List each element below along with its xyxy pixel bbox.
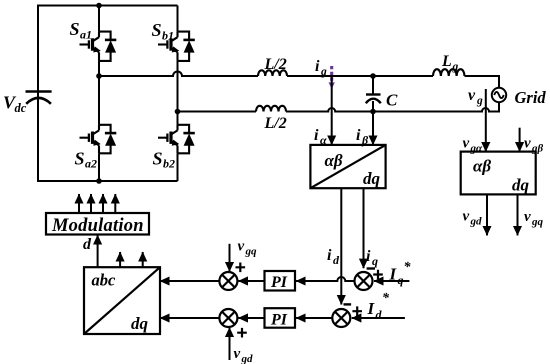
wire: gate drive arrow 4 bbox=[114, 194, 116, 213]
wire: bottom AC line from node B bbox=[178, 111, 257, 113]
inductor L/2 (top) bbox=[258, 70, 287, 76]
wire: v-g-beta input arrow bbox=[519, 128, 521, 152]
svg-text:gd: gd bbox=[241, 353, 254, 364]
label plus at X1 bbox=[236, 263, 246, 273]
transistor Sa2 (IGBT with antiparallel diode) bbox=[80, 125, 117, 154]
svg-text:abc: abc bbox=[92, 271, 117, 290]
wire: PI q output arrow into X1 bbox=[238, 280, 264, 282]
node: leg A bottom junction bbox=[96, 178, 102, 184]
wire: vg sense line to voltage box bbox=[485, 89, 487, 152]
svg-text:i: i bbox=[315, 58, 320, 75]
node A: leg A midpoint bbox=[96, 73, 102, 79]
svg-text:PI: PI bbox=[270, 312, 288, 329]
summer X4 (right, d axis) bbox=[332, 309, 350, 327]
label v-g-beta bbox=[524, 136, 544, 155]
inductor L/2 (bottom) bbox=[256, 106, 286, 112]
label vgq (feedforward) bbox=[238, 239, 258, 258]
label vg bbox=[468, 87, 483, 107]
inductor Lg bbox=[433, 69, 464, 76]
block U1: alpha-beta to dq transform (current) bbox=[310, 145, 385, 188]
node: capacitor bottom junction bbox=[370, 109, 376, 115]
svg-text:i: i bbox=[366, 248, 371, 265]
svg-text:dq: dq bbox=[512, 176, 530, 195]
wire: i-alpha sense line from top AC line to alpha-beta/dq box bbox=[331, 76, 333, 145]
wire: DC bus bottom rail bbox=[37, 180, 178, 182]
svg-text:dq: dq bbox=[363, 169, 381, 188]
block PI (d axis) bbox=[265, 308, 296, 328]
label id bbox=[327, 247, 340, 267]
svg-text:PI: PI bbox=[270, 274, 288, 291]
summer X3 (left, d axis) bbox=[219, 309, 237, 327]
wire: gate drive arrow 1 bbox=[78, 194, 80, 213]
label v-gq bbox=[524, 209, 544, 228]
svg-text:q: q bbox=[398, 273, 404, 287]
wire: vgd feedforward arrow into X3 bbox=[229, 328, 231, 361]
svg-text:dc: dc bbox=[15, 101, 27, 115]
node: leg A top junction bbox=[96, 3, 102, 9]
wire: top AC line to grid corner bbox=[465, 76, 500, 88]
svg-text:S: S bbox=[153, 149, 163, 169]
label minus at X4 bbox=[344, 303, 352, 305]
label Id* bbox=[367, 291, 391, 322]
label plus at X2 bbox=[373, 270, 383, 280]
wire: top AC line with hop over leg B bbox=[99, 72, 258, 77]
svg-text:L/2: L/2 bbox=[264, 115, 287, 132]
label ig bbox=[315, 58, 327, 78]
svg-text:I: I bbox=[367, 299, 376, 318]
svg-text:a1: a1 bbox=[80, 28, 92, 42]
wire: Id* reference line into X4 bbox=[352, 317, 405, 319]
svg-text:*: * bbox=[382, 291, 390, 306]
svg-text:i: i bbox=[327, 247, 332, 264]
label i-alpha bbox=[314, 127, 327, 147]
svg-text:C: C bbox=[386, 91, 398, 110]
wire: gate drive arrow 2 bbox=[90, 194, 92, 213]
svg-text:v: v bbox=[463, 209, 470, 225]
wire: X4 output arrow into PI d bbox=[296, 317, 332, 319]
svg-text:αβ: αβ bbox=[325, 151, 343, 170]
wire: Iq* reference line into X2 bbox=[374, 280, 409, 282]
source vg (AC grid source) bbox=[492, 88, 506, 102]
capacitor C bbox=[366, 76, 381, 112]
label Sb2 bbox=[153, 149, 176, 171]
wire: short output arrow 1 on abc box bbox=[119, 252, 121, 267]
wire: bottom AC line with hop over i-alpha sense line bbox=[286, 102, 499, 112]
wire: d output arrow to Modulation bbox=[97, 235, 99, 267]
svg-text:d: d bbox=[333, 253, 340, 267]
svg-text:*: * bbox=[404, 260, 412, 275]
wire: X1 output arrow into abc/dq box bbox=[160, 280, 219, 282]
svg-text:a2: a2 bbox=[85, 157, 97, 171]
summer X1 (left, q axis) bbox=[219, 272, 237, 290]
wire: v-gd output arrow bbox=[486, 194, 488, 235]
label v-gd bbox=[463, 209, 483, 228]
label Iq* bbox=[389, 260, 412, 287]
block U3: dq to abc transform bbox=[84, 267, 160, 334]
svg-text:i: i bbox=[314, 127, 319, 144]
wire: i-beta sense line from capacitor node to alpha-beta/dq box bbox=[372, 112, 374, 145]
svg-text:v: v bbox=[524, 136, 531, 152]
transistor Sa1 (IGBT with antiparallel diode) bbox=[80, 32, 117, 61]
svg-text:gq: gq bbox=[531, 216, 544, 228]
label Lg bbox=[441, 53, 459, 73]
wire: phase leg B rail bbox=[177, 6, 179, 182]
svg-text:i: i bbox=[356, 127, 361, 144]
wire: short output arrow 2 on abc box bbox=[142, 252, 144, 267]
svg-text:L: L bbox=[441, 53, 452, 70]
svg-text:gq: gq bbox=[245, 246, 258, 258]
svg-text:d: d bbox=[376, 308, 383, 322]
capacitor Vdc bbox=[26, 92, 52, 104]
wire: gate drive arrow 3 bbox=[102, 194, 104, 213]
block PI (q axis) bbox=[265, 271, 296, 291]
wire: ig measurement arrow (purple dashed) bbox=[329, 66, 335, 89]
wire: iq arrow into X2 bbox=[363, 188, 365, 268]
svg-text:Grid: Grid bbox=[515, 88, 547, 107]
svg-text:d: d bbox=[83, 236, 92, 253]
label vgd (feedforward) bbox=[234, 346, 254, 364]
svg-text:g: g bbox=[452, 61, 459, 73]
svg-text:S: S bbox=[70, 19, 80, 39]
label Sa2 bbox=[75, 149, 98, 171]
svg-text:v: v bbox=[234, 346, 241, 362]
wire: X2 output to PI with hop over id line bbox=[296, 277, 354, 281]
wire: v-gq output arrow bbox=[517, 194, 519, 235]
label v-g-alpha bbox=[463, 136, 484, 155]
label i-beta bbox=[356, 127, 369, 147]
label minus at X2 bbox=[367, 267, 375, 269]
svg-text:q: q bbox=[372, 254, 378, 268]
label Sb1 bbox=[152, 20, 175, 43]
label plus at X3 bbox=[237, 328, 247, 338]
summer X2 (right, q axis) bbox=[355, 272, 373, 290]
svg-text:g: g bbox=[320, 66, 327, 78]
svg-text:b1: b1 bbox=[162, 29, 174, 43]
svg-text:Modulation: Modulation bbox=[51, 216, 144, 236]
svg-text:S: S bbox=[152, 20, 162, 40]
svg-text:αβ: αβ bbox=[473, 157, 491, 176]
block: Modulation bbox=[46, 213, 149, 236]
label Sa1 bbox=[70, 19, 93, 42]
wire: DC bus left rail bbox=[37, 6, 39, 182]
node B: leg B midpoint bbox=[175, 109, 181, 115]
label iq bbox=[366, 248, 378, 268]
label Vdc bbox=[3, 93, 27, 116]
svg-text:gd: gd bbox=[470, 216, 483, 228]
label plus at X4 bbox=[352, 306, 362, 316]
transistor Sb2 (IGBT with antiparallel diode) bbox=[158, 125, 195, 154]
wire: X3 output arrow into abc/dq box bbox=[160, 317, 219, 319]
wire: PI d output arrow into X3 bbox=[238, 317, 264, 319]
block U2: alpha-beta to dq transform (voltage) bbox=[461, 152, 536, 195]
svg-text:v: v bbox=[238, 239, 245, 255]
wire: DC bus top rail bbox=[37, 5, 178, 7]
svg-text:L/2: L/2 bbox=[264, 56, 287, 73]
svg-text:v: v bbox=[468, 87, 476, 104]
svg-text:v: v bbox=[463, 136, 470, 152]
transistor Sb1 (IGBT with antiparallel diode) bbox=[158, 32, 195, 61]
wire: phase leg A rail bbox=[98, 6, 100, 182]
wire: vgq feedforward arrow into X1 bbox=[229, 244, 231, 272]
wire: top AC line, coil to Lg bbox=[287, 75, 433, 77]
wire: id arrow into X4 bbox=[340, 188, 342, 304]
svg-text:dq: dq bbox=[131, 314, 149, 333]
svg-text:g: g bbox=[476, 95, 483, 107]
svg-text:b2: b2 bbox=[163, 157, 175, 171]
node: capacitor top junction bbox=[370, 73, 376, 79]
svg-text:v: v bbox=[524, 209, 531, 225]
svg-text:S: S bbox=[75, 149, 85, 169]
